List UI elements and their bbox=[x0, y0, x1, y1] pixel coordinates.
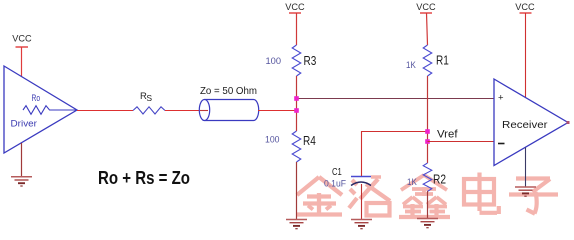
svg-text:VCC: VCC bbox=[416, 2, 436, 12]
resistor RS bbox=[133, 91, 165, 114]
resistor R3 bbox=[266, 45, 317, 76]
wire C1 to ground bbox=[361, 184, 363, 219]
wire R4 to ground bbox=[296, 162, 298, 219]
svg-text:+: + bbox=[498, 93, 504, 104]
svg-text:Receiver: Receiver bbox=[502, 120, 548, 131]
node receiver output stub bbox=[567, 121, 570, 124]
resistor R2 bbox=[407, 163, 446, 191]
wire driver output bbox=[77, 110, 133, 112]
wire line to node bbox=[258, 110, 297, 112]
svg-text:Ro: Ro bbox=[32, 93, 41, 103]
wire VCC to R1 bbox=[427, 13, 428, 45]
wire receiver to ground bbox=[525, 148, 527, 188]
wire VCC to receiver bbox=[525, 13, 527, 98]
transmission line Zo = 50 Ohm bbox=[199, 85, 258, 121]
ground R4 bbox=[286, 220, 307, 229]
wire VCC to R3 bbox=[296, 13, 298, 45]
node Vref bbox=[425, 128, 458, 140]
node junction upper bbox=[294, 96, 299, 101]
svg-text:R3: R3 bbox=[304, 53, 317, 68]
svg-text:Ro + Rs = Zo: Ro + Rs = Zo bbox=[98, 167, 190, 188]
svg-text:0.1uF: 0.1uF bbox=[324, 178, 346, 188]
svg-text:S: S bbox=[146, 93, 152, 103]
鑫 bbox=[399, 175, 450, 217]
wire driver to ground bbox=[21, 143, 23, 176]
VCC symbol R3 bbox=[285, 2, 305, 13]
resistor R1 bbox=[406, 45, 449, 76]
ground R2 bbox=[417, 219, 438, 228]
wire R1 to R2 bbox=[427, 76, 429, 163]
svg-text:100: 100 bbox=[265, 135, 280, 146]
svg-text:100: 100 bbox=[266, 56, 282, 67]
wire C1 to Vref bbox=[362, 132, 428, 177]
金 bbox=[296, 177, 342, 215]
电 bbox=[464, 173, 499, 215]
resistor R4 bbox=[265, 131, 316, 162]
VCC symbol R1 bbox=[416, 2, 436, 13]
VCC symbol receiver bbox=[515, 2, 535, 13]
子 bbox=[509, 179, 558, 214]
resistor Ro bbox=[23, 106, 76, 115]
svg-text:Vref: Vref bbox=[437, 128, 458, 140]
svg-text:R2: R2 bbox=[433, 172, 446, 187]
svg-text:VCC: VCC bbox=[285, 2, 305, 12]
svg-text:VCC: VCC bbox=[515, 2, 535, 12]
svg-text:Zo = 50 Ohm: Zo = 50 Ohm bbox=[200, 85, 257, 97]
svg-text:VCC: VCC bbox=[12, 33, 32, 43]
op-amp receiver triangle bbox=[494, 79, 568, 166]
svg-text:C1: C1 bbox=[332, 167, 342, 178]
wire RS to line bbox=[165, 110, 204, 112]
wire R3 to node bbox=[296, 76, 298, 131]
svg-text:R1: R1 bbox=[436, 53, 449, 68]
wire VCC to driver bbox=[21, 47, 23, 77]
node junction minus bbox=[425, 139, 430, 144]
svg-text:1K: 1K bbox=[406, 60, 416, 71]
ground C1 bbox=[351, 220, 372, 229]
wire Vref to receiver - bbox=[428, 141, 495, 143]
wire R2 to ground bbox=[427, 191, 429, 218]
capacitor C1 bbox=[324, 167, 371, 189]
ground driver bbox=[11, 177, 32, 186]
node junction lower bbox=[294, 108, 299, 113]
洛 bbox=[349, 177, 390, 216]
VCC symbol driver bbox=[12, 33, 32, 47]
wire node to receiver + bbox=[297, 98, 495, 100]
svg-text:R4: R4 bbox=[303, 133, 316, 148]
ground receiver bbox=[515, 187, 536, 196]
watermark 金洛鑫电子 bbox=[296, 173, 558, 218]
svg-text:Driver: Driver bbox=[11, 118, 38, 129]
op-amp U? driver triangle bbox=[4, 66, 77, 153]
svg-text:1K: 1K bbox=[407, 177, 417, 188]
